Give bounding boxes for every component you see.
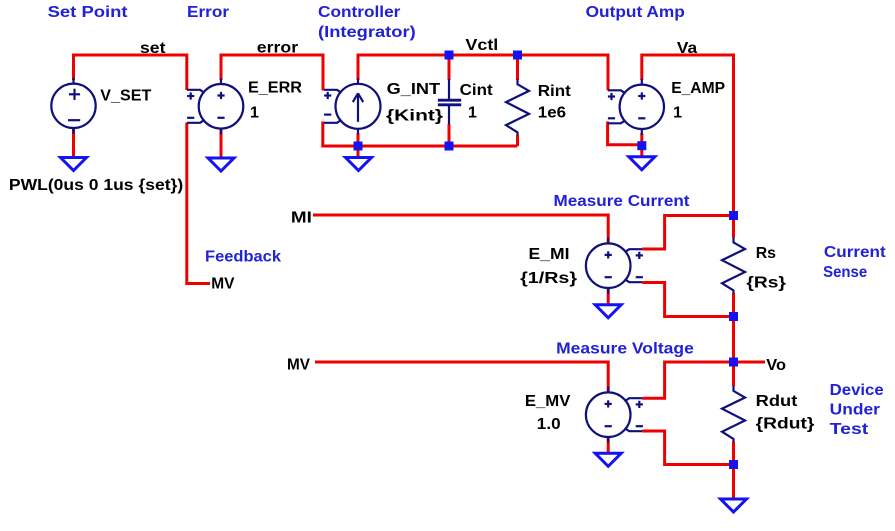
svg-text:{Rdut}: {Rdut} xyxy=(756,415,815,432)
vccs G_INT xyxy=(324,78,381,134)
ground below G_INT xyxy=(346,158,372,171)
svg-text:set: set xyxy=(140,40,166,57)
svg-text:Rint: Rint xyxy=(538,83,572,100)
svg-text:E_ERR: E_ERR xyxy=(248,80,302,97)
wire E_MV minus control to Rdut bottom xyxy=(642,431,733,465)
wire G_INT bottom stub xyxy=(357,133,360,146)
svg-text:1: 1 xyxy=(250,105,259,122)
junction Vctl-Rint xyxy=(513,51,522,60)
svg-text:Measure Voltage: Measure Voltage xyxy=(556,341,694,358)
junction Vctl-Cint xyxy=(445,51,454,60)
svg-text:1: 1 xyxy=(468,105,477,122)
wire Va rail xyxy=(642,55,734,216)
svg-text:{Kint}: {Kint} xyxy=(386,108,443,125)
junction Vo node xyxy=(729,358,738,367)
svg-text:G_INT: G_INT xyxy=(387,81,441,98)
voltage source V_SET xyxy=(51,78,95,134)
wire bottom ground stub xyxy=(732,465,735,501)
svg-text:Under: Under xyxy=(830,402,880,419)
svg-text:PWL(0us 0 1us {set}): PWL(0us 0 1us {set}) xyxy=(9,177,183,194)
ground below E_AMP xyxy=(629,157,655,170)
svg-text:E_MV: E_MV xyxy=(525,393,571,410)
wire E_AMP ground stub xyxy=(640,146,643,157)
svg-text:1e6: 1e6 xyxy=(538,105,566,122)
ground below V_SET xyxy=(61,158,87,171)
junction E_AMP ground xyxy=(637,141,646,150)
wire Rint bottom stub xyxy=(516,135,519,146)
svg-text:(Integrator): (Integrator) xyxy=(318,24,416,41)
junction Rs bottom xyxy=(729,312,738,321)
ground below E_MI xyxy=(595,305,621,318)
wire Rdut bottom stub xyxy=(732,442,735,465)
ground below E_ERR xyxy=(208,158,234,171)
svg-text:Vctl: Vctl xyxy=(465,37,498,54)
wire Rint top stub xyxy=(516,55,519,80)
svg-text:error: error xyxy=(257,40,298,57)
wire MV line xyxy=(315,362,608,392)
svg-text:Rdut: Rdut xyxy=(756,393,798,410)
wire E_MV bottom stub xyxy=(607,437,610,454)
svg-text:MI: MI xyxy=(291,210,312,227)
svg-text:Feedback: Feedback xyxy=(205,249,281,266)
wire Vctl rail xyxy=(358,55,608,90)
svg-text:V_SET: V_SET xyxy=(100,88,151,105)
junction G_INT bottom xyxy=(354,142,363,151)
svg-text:Cint: Cint xyxy=(460,82,494,99)
junction Rdut bottom xyxy=(729,460,738,469)
wire E_MI minus control to Rs bottom xyxy=(642,283,733,317)
svg-text:Va: Va xyxy=(677,40,697,57)
vcvs E_AMP xyxy=(608,79,664,135)
wire Rs bottom stub xyxy=(732,293,735,317)
resistor Rs xyxy=(722,237,745,293)
svg-text:{1/Rs}: {1/Rs} xyxy=(520,270,577,287)
svg-text:Error: Error xyxy=(187,4,229,21)
wire Rs bottom to Vo xyxy=(732,317,735,363)
wire E_MV plus control to Vo xyxy=(642,362,733,398)
svg-text:E_MI: E_MI xyxy=(529,246,570,263)
svg-text:Device: Device xyxy=(830,382,884,399)
wire Rs top stub xyxy=(732,216,735,238)
svg-text:Current: Current xyxy=(824,244,887,261)
comment label Device Under Test xyxy=(830,382,884,438)
svg-text:1.0: 1.0 xyxy=(537,416,561,433)
vcvs E_MV (mirrored) xyxy=(586,387,643,443)
junction Rs top xyxy=(729,211,738,220)
svg-text:Measure Current: Measure Current xyxy=(554,193,691,210)
vcvs E_ERR xyxy=(187,78,243,134)
wire E_MI bottom stub xyxy=(607,288,610,305)
ground below E_MV xyxy=(595,453,621,466)
wire controller bottom rail xyxy=(323,122,518,147)
wire Cint bottom stub xyxy=(448,124,451,146)
wire MI line xyxy=(313,215,608,243)
wire E_MI plus control to Rs top xyxy=(642,216,733,250)
svg-text:Vo: Vo xyxy=(766,357,786,374)
wire G_INT ground stub xyxy=(357,146,360,158)
wire E_ERR bottom xyxy=(220,129,223,159)
svg-text:Sense: Sense xyxy=(823,264,867,281)
svg-text:MV: MV xyxy=(211,276,235,293)
vcvs E_MI (mirrored) xyxy=(586,238,643,294)
svg-text:Output Amp: Output Amp xyxy=(586,4,685,21)
svg-text:Rs: Rs xyxy=(756,245,776,262)
svg-text:E_AMP: E_AMP xyxy=(671,80,725,97)
comment label Controller (Integrator) xyxy=(318,4,416,41)
svg-text:MV: MV xyxy=(287,357,310,374)
svg-text:Controller: Controller xyxy=(318,4,400,21)
resistor Rint xyxy=(506,79,529,135)
wire feedback from E_ERR minus to MV xyxy=(187,123,210,284)
svg-text:1: 1 xyxy=(673,105,682,122)
junction Cint bottom xyxy=(445,142,454,151)
svg-text:Test: Test xyxy=(830,421,869,438)
wire error rail xyxy=(221,55,323,91)
wire set rail xyxy=(74,55,187,90)
resistor Rdut xyxy=(722,386,745,442)
capacitor Cint xyxy=(438,79,461,125)
wire V_SET bottom xyxy=(72,128,75,158)
wire E_AMP bottom stub xyxy=(640,133,643,146)
svg-text:{Rs}: {Rs} xyxy=(746,274,786,291)
wire Cint top stub xyxy=(448,55,451,80)
wire Rdut top stub xyxy=(732,362,735,386)
svg-text:Set Point: Set Point xyxy=(48,4,129,21)
wire Vo stub xyxy=(734,361,766,364)
ground bottom of chain xyxy=(721,499,747,512)
wire E_AMP minus control to ground junction xyxy=(608,122,638,145)
comment label Current Sense xyxy=(823,244,886,281)
